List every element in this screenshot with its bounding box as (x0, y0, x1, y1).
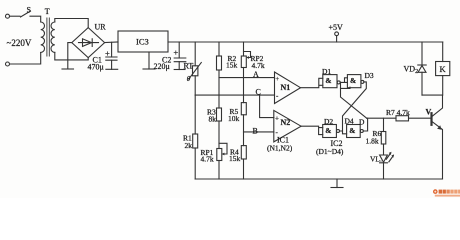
resistor R5 (241, 103, 246, 115)
svg-text:D2: D2 (324, 117, 333, 126)
C1 plus sign (106, 52, 109, 55)
resistor R3 (217, 108, 222, 121)
svg-text:VL.: VL. (370, 154, 382, 163)
IC3 ground pin (148, 52, 150, 69)
wire N1 output (301, 78, 323, 87)
bottom rail wire (195, 178, 442, 180)
node C wire (195, 94, 274, 96)
svg-text:K: K (440, 64, 447, 74)
wire cross-couple from D1 output (341, 82, 367, 118)
svg-text:T: T (45, 7, 50, 16)
svg-text:N1: N1 (281, 83, 291, 92)
wire VD2/K bottom node (422, 94, 443, 96)
svg-text:S: S (27, 6, 31, 15)
svg-text:N2: N2 (281, 118, 291, 127)
svg-text:IC3: IC3 (136, 37, 149, 47)
wire bridge output to IC3 (105, 41, 118, 44)
resistor R7 (396, 116, 409, 121)
potentiometer RP2 (243, 42, 245, 56)
svg-text:~220V: ~220V (7, 38, 32, 48)
bridge rectifier UR diamond (72, 28, 105, 58)
svg-text:15k: 15k (229, 154, 241, 163)
svg-text:C: C (256, 87, 261, 96)
op-amp N2 (274, 110, 301, 141)
svg-text:RT: RT (184, 62, 194, 71)
diode VD2 (421, 42, 423, 65)
wire D2 to D4 (340, 131, 347, 134)
svg-text:D3: D3 (365, 71, 374, 80)
RP2 wiper (244, 52, 251, 58)
svg-text:V: V (426, 108, 432, 117)
svg-text:D1: D1 (322, 67, 331, 76)
ground on bottom rail (336, 179, 338, 188)
svg-text:4.7k: 4.7k (201, 155, 214, 164)
wire D3 output cross-couple (343, 82, 367, 131)
transformer T primary winding (41, 22, 45, 52)
wire into D3 lower input (341, 87, 351, 88)
svg-text:+5V: +5V (329, 23, 344, 32)
wire (10, 53, 41, 65)
svg-text:220μ: 220μ (154, 62, 170, 71)
+5V terminal (335, 32, 339, 36)
wire D4 output to node D (363, 118, 367, 131)
wire (30, 16, 41, 22)
transistor V (430, 113, 432, 125)
switch S (21, 11, 31, 17)
svg-text:B: B (253, 126, 258, 135)
wire left vertex to ground (68, 43, 72, 69)
ground (143, 68, 155, 70)
svg-text:(D1~D4): (D1~D4) (316, 147, 344, 156)
ground (106, 68, 118, 70)
svg-text:&: & (325, 76, 331, 85)
svg-text:UR: UR (95, 23, 107, 32)
svg-text:θ: θ (187, 74, 191, 83)
potentiometer RP1 (217, 149, 222, 161)
RP1 wiper (219, 143, 227, 154)
op-amp N1 (275, 72, 301, 104)
ground (174, 69, 185, 71)
svg-text:+: + (275, 75, 279, 83)
svg-text:&: & (349, 126, 355, 135)
resistor R6 (381, 132, 386, 145)
transformer T secondary winding (51, 22, 55, 52)
ground (62, 68, 74, 70)
capacitor C2 (178, 42, 180, 58)
terminal bottom-left (6, 62, 10, 66)
node B wire (244, 131, 274, 133)
wire N2 output (301, 126, 323, 134)
svg-text:2k: 2k (185, 141, 193, 150)
node A wire (219, 77, 275, 79)
svg-text:+: + (275, 114, 279, 122)
wire secondary bottom (55, 52, 88, 60)
svg-text:1.8k: 1.8k (366, 136, 379, 145)
svg-text:D4: D4 (345, 116, 354, 125)
wire D1 to D3 (340, 78, 347, 83)
bridge diode symbol (79, 42, 99, 44)
svg-text:R7 4.7k: R7 4.7k (386, 108, 410, 117)
+5V rail wire (168, 41, 443, 43)
svg-text:15k: 15k (226, 61, 238, 70)
gate D1 (323, 75, 337, 88)
gate D2 (323, 125, 337, 138)
gate D4 (347, 125, 361, 138)
resistor R4 (241, 146, 246, 159)
thermistor RT (194, 42, 196, 66)
svg-text:&: & (325, 126, 331, 135)
svg-text:&: & (350, 76, 356, 85)
svg-text:8k: 8k (209, 115, 217, 124)
svg-text:470μ: 470μ (88, 63, 104, 72)
LED VL (380, 155, 388, 163)
svg-text:(N1,N2): (N1,N2) (267, 144, 293, 153)
wire (10, 15, 21, 17)
svg-text:10k: 10k (228, 114, 240, 123)
svg-text:D: D (359, 117, 365, 126)
resistor R2 (218, 42, 220, 56)
relay K (442, 42, 444, 62)
svg-text:A: A (253, 70, 259, 79)
IC3 (118, 31, 168, 52)
resistor R1 (194, 95, 196, 134)
transformer core (47, 18, 49, 56)
watermark logo (433, 189, 460, 196)
capacitor C1 (111, 42, 113, 57)
terminal top-left (6, 14, 10, 18)
svg-text:4.7k: 4.7k (252, 61, 265, 70)
wire C to N2 input (260, 95, 274, 118)
gate D3 (347, 75, 361, 88)
wire node D to R6 (383, 118, 385, 131)
wire secondary top to bridge (55, 19, 88, 28)
node D wire to R7 (367, 117, 396, 119)
C2 plus sign (174, 51, 177, 54)
